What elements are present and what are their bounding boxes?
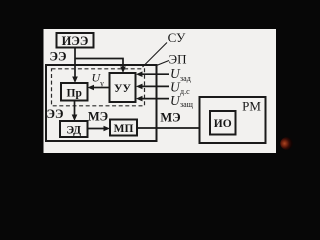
- svg-text:УУ: УУ: [114, 83, 131, 95]
- svg-text:ЭП: ЭП: [169, 52, 187, 67]
- block МП: [110, 120, 137, 136]
- svg-text:ИЭЭ: ИЭЭ: [62, 34, 89, 48]
- block ИО: [210, 111, 236, 135]
- outer box ЭП: [46, 65, 157, 141]
- svg-text:РМ: РМ: [242, 99, 261, 114]
- svg-text:СУ: СУ: [168, 30, 186, 45]
- svg-text:ЭЭ: ЭЭ: [47, 107, 64, 121]
- block ЭД: [60, 121, 88, 137]
- wire Uзад input: [136, 71, 169, 77]
- svg-text:МП: МП: [114, 123, 134, 135]
- dashed box СУ: [52, 69, 145, 106]
- block ИЭЭ: [57, 33, 94, 48]
- wire МП to ИО: [137, 125, 210, 131]
- block Пр: [61, 83, 88, 101]
- wire Uзащ input: [136, 96, 169, 102]
- svg-text:зад: зад: [180, 74, 191, 83]
- wire ИЭЭ to Пр: [72, 48, 78, 84]
- block УУ: [110, 73, 136, 102]
- svg-text:МЭ: МЭ: [88, 110, 108, 124]
- svg-text:защ: защ: [180, 100, 193, 109]
- wire branch to УУ: [75, 59, 126, 74]
- label ЭП with pointer: [157, 52, 187, 67]
- svg-text:ЭЭ: ЭЭ: [50, 50, 67, 64]
- svg-text:МЭ: МЭ: [160, 111, 180, 125]
- video letterbox background: [0, 0, 300, 169]
- svg-text:д.с: д.с: [180, 87, 190, 96]
- label СУ with pointer: [143, 30, 187, 67]
- wire УУ to Пр: [88, 85, 110, 91]
- svg-text:Пр: Пр: [67, 88, 82, 100]
- red watermark dot: [280, 137, 292, 149]
- svg-text:ИО: ИО: [214, 118, 232, 130]
- box РМ: [200, 97, 266, 143]
- white content area: [44, 29, 277, 153]
- label Uзад: [170, 66, 191, 83]
- wire Пр to ЭД: [72, 101, 78, 122]
- label Uзащ: [170, 93, 193, 109]
- svg-text:ЭД: ЭД: [66, 125, 81, 137]
- label Uд.с: [170, 80, 190, 97]
- wire Uд.с input: [136, 84, 169, 90]
- wire ЭД to МП: [88, 126, 111, 132]
